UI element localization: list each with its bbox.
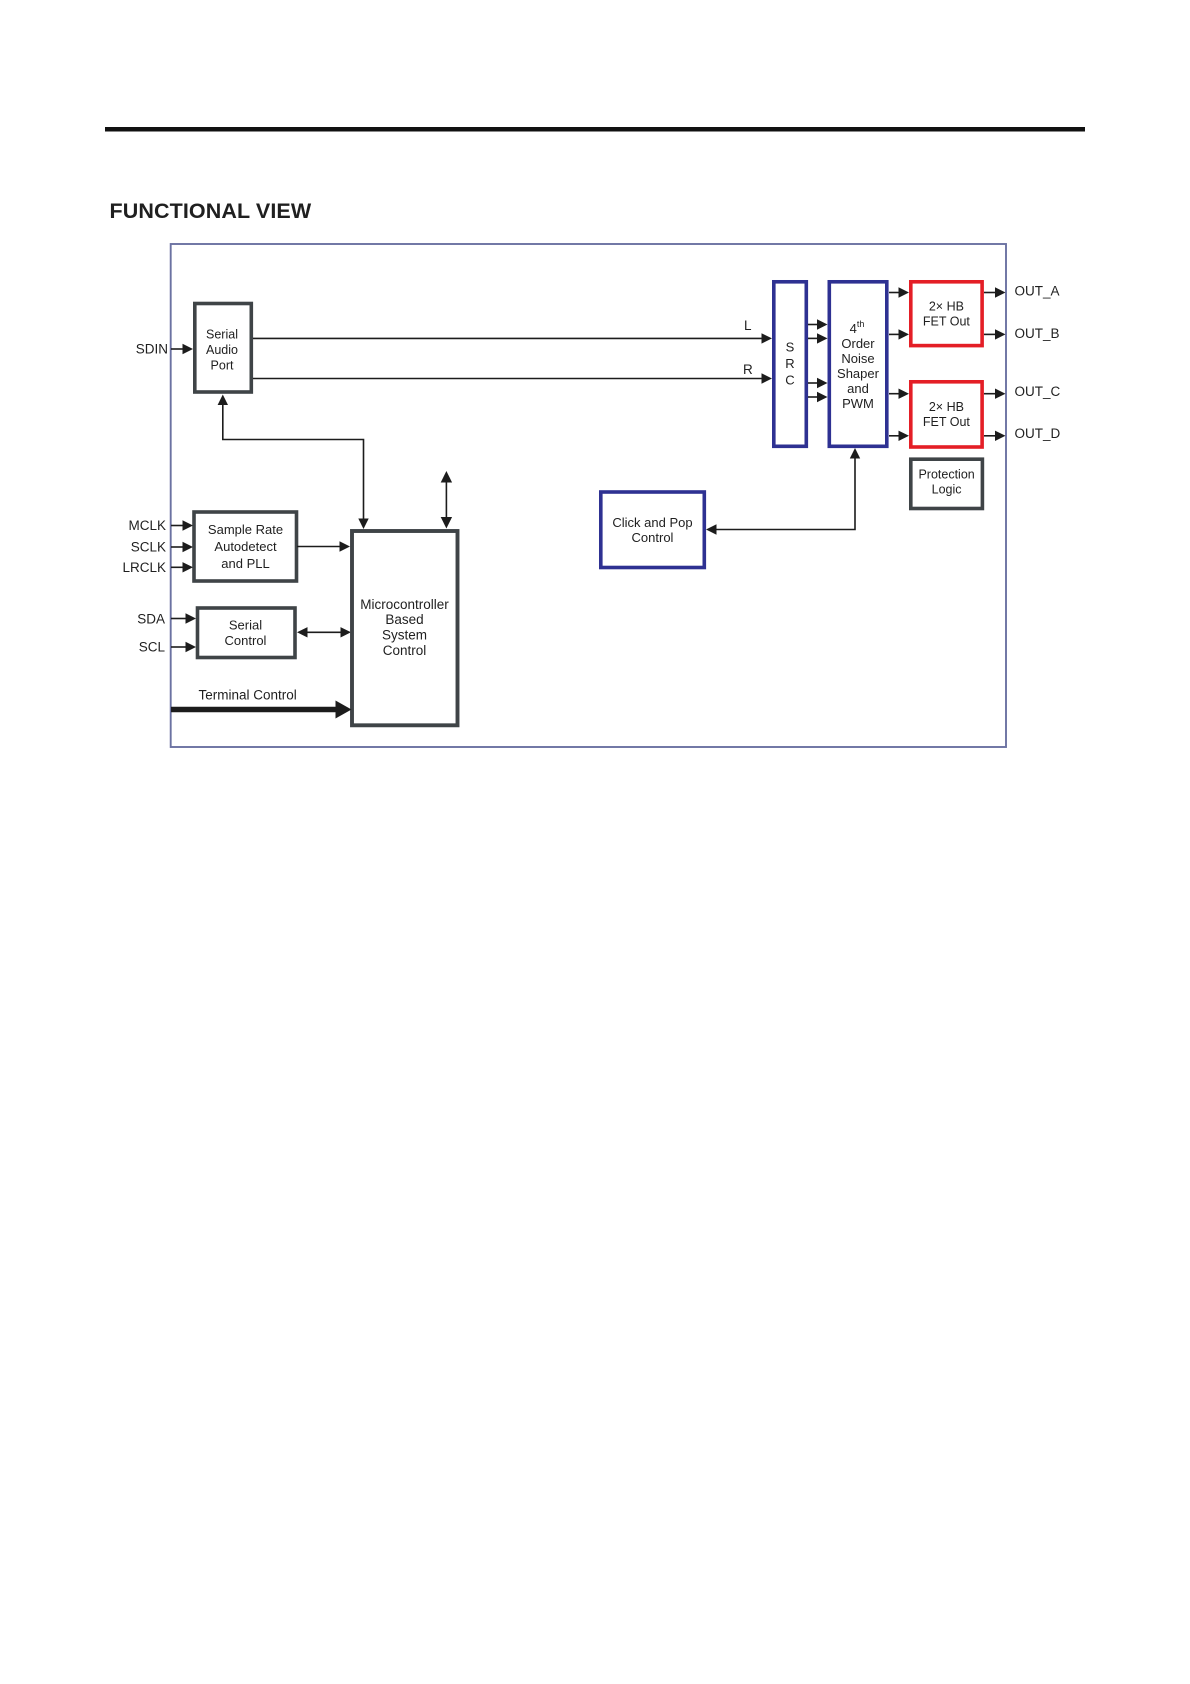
svg-text:OUT_D: OUT_D: [1015, 426, 1061, 441]
svg-text:Autodetect: Autodetect: [214, 539, 277, 554]
wire FET Out B to border: [984, 329, 1006, 339]
block: Sample Rate Autodetect and PLL: [194, 512, 297, 581]
svg-text:FET Out: FET Out: [923, 315, 971, 329]
wire SAP feedback from system control: [218, 395, 369, 530]
block: Protection Logic: [911, 459, 983, 508]
svg-text:Serial: Serial: [229, 618, 262, 633]
svg-text:SCLK: SCLK: [131, 540, 166, 555]
svg-text:Shaper: Shaper: [837, 366, 880, 381]
wire SDIN arrow: [171, 344, 193, 354]
block: 4th Order Noise Shaper and PWM: [829, 282, 887, 447]
wire Terminal Control thick arrow: [171, 701, 352, 719]
svg-text:LRCLK: LRCLK: [122, 560, 166, 575]
wire Noise Shaper to Click and Pop (double headed): [706, 448, 860, 535]
header rule: [105, 127, 1085, 132]
svg-text:Sample Rate: Sample Rate: [208, 522, 283, 537]
block: Serial Audio Port: [195, 304, 252, 393]
block: SRC: [774, 282, 807, 447]
svg-text:Control: Control: [383, 643, 427, 658]
wire FET Out A to border: [984, 287, 1006, 297]
svg-text:OUT_B: OUT_B: [1015, 326, 1060, 341]
wire LRCLK arrow: [171, 562, 193, 572]
svg-text:Terminal Control: Terminal Control: [199, 688, 297, 703]
block: Click and Pop Control: [601, 492, 705, 568]
svg-text:Serial: Serial: [206, 328, 238, 342]
svg-text:System: System: [382, 628, 427, 643]
svg-text:R: R: [785, 356, 794, 371]
wire FET Out D to border: [984, 431, 1006, 441]
diagram outer border: [171, 244, 1006, 747]
wire Microcontroller top double arrow: [441, 471, 452, 529]
svg-text:C: C: [785, 373, 794, 388]
block: Microcontroller Based System Control: [352, 531, 458, 725]
svg-text:SDIN: SDIN: [136, 342, 168, 357]
svg-text:L: L: [744, 318, 752, 333]
svg-text:OUT_C: OUT_C: [1015, 384, 1061, 399]
block: 2x HB FET Out (top): [911, 282, 982, 346]
svg-text:Click and Pop: Click and Pop: [612, 515, 692, 530]
svg-text:S: S: [786, 340, 795, 355]
svg-text:2× HB: 2× HB: [929, 400, 964, 414]
svg-text:PWM: PWM: [842, 396, 874, 411]
svg-text:R: R: [743, 362, 753, 377]
wire Serial Control to Microcontroller (double headed): [297, 627, 351, 637]
svg-text:Order: Order: [841, 336, 875, 351]
wire Sample Rate to Microcontroller: [297, 541, 350, 551]
wires SRC to Noise Shaper (4 arrows): [808, 319, 828, 329]
svg-text:Port: Port: [211, 359, 234, 373]
svg-text:and: and: [847, 381, 869, 396]
svg-text:Noise: Noise: [841, 351, 874, 366]
svg-text:Audio: Audio: [206, 343, 238, 357]
svg-text:SDA: SDA: [137, 612, 165, 627]
wire SCLK arrow: [171, 542, 193, 552]
svg-text:and PLL: and PLL: [221, 556, 269, 571]
svg-text:2× HB: 2× HB: [929, 300, 964, 314]
wire SAP to SRC (L channel): [253, 333, 772, 343]
wires Noise Shaper to FET Out C/D: [889, 389, 909, 399]
block: Serial Control: [198, 608, 296, 658]
svg-text:Based: Based: [385, 612, 423, 627]
wires Noise Shaper to FET Out A/B: [889, 287, 909, 297]
svg-text:Control: Control: [225, 633, 267, 648]
svg-text:OUT_A: OUT_A: [1015, 284, 1060, 299]
svg-text:Logic: Logic: [932, 483, 962, 497]
svg-text:FUNCTIONAL VIEW: FUNCTIONAL VIEW: [110, 199, 312, 223]
svg-text:Protection: Protection: [918, 468, 974, 482]
svg-text:FET Out: FET Out: [923, 415, 971, 429]
svg-text:Control: Control: [632, 530, 674, 545]
wire SAP to SRC (R channel): [253, 373, 772, 383]
wire SCL arrow: [171, 642, 196, 652]
wire MCLK arrow: [171, 520, 193, 530]
svg-text:SCL: SCL: [139, 640, 166, 655]
svg-text:Microcontroller: Microcontroller: [360, 597, 449, 612]
wire SDA arrow: [171, 613, 196, 623]
wire FET Out C to border: [984, 389, 1006, 399]
svg-text:MCLK: MCLK: [128, 518, 166, 533]
block: 2x HB FET Out (bottom): [911, 382, 982, 447]
